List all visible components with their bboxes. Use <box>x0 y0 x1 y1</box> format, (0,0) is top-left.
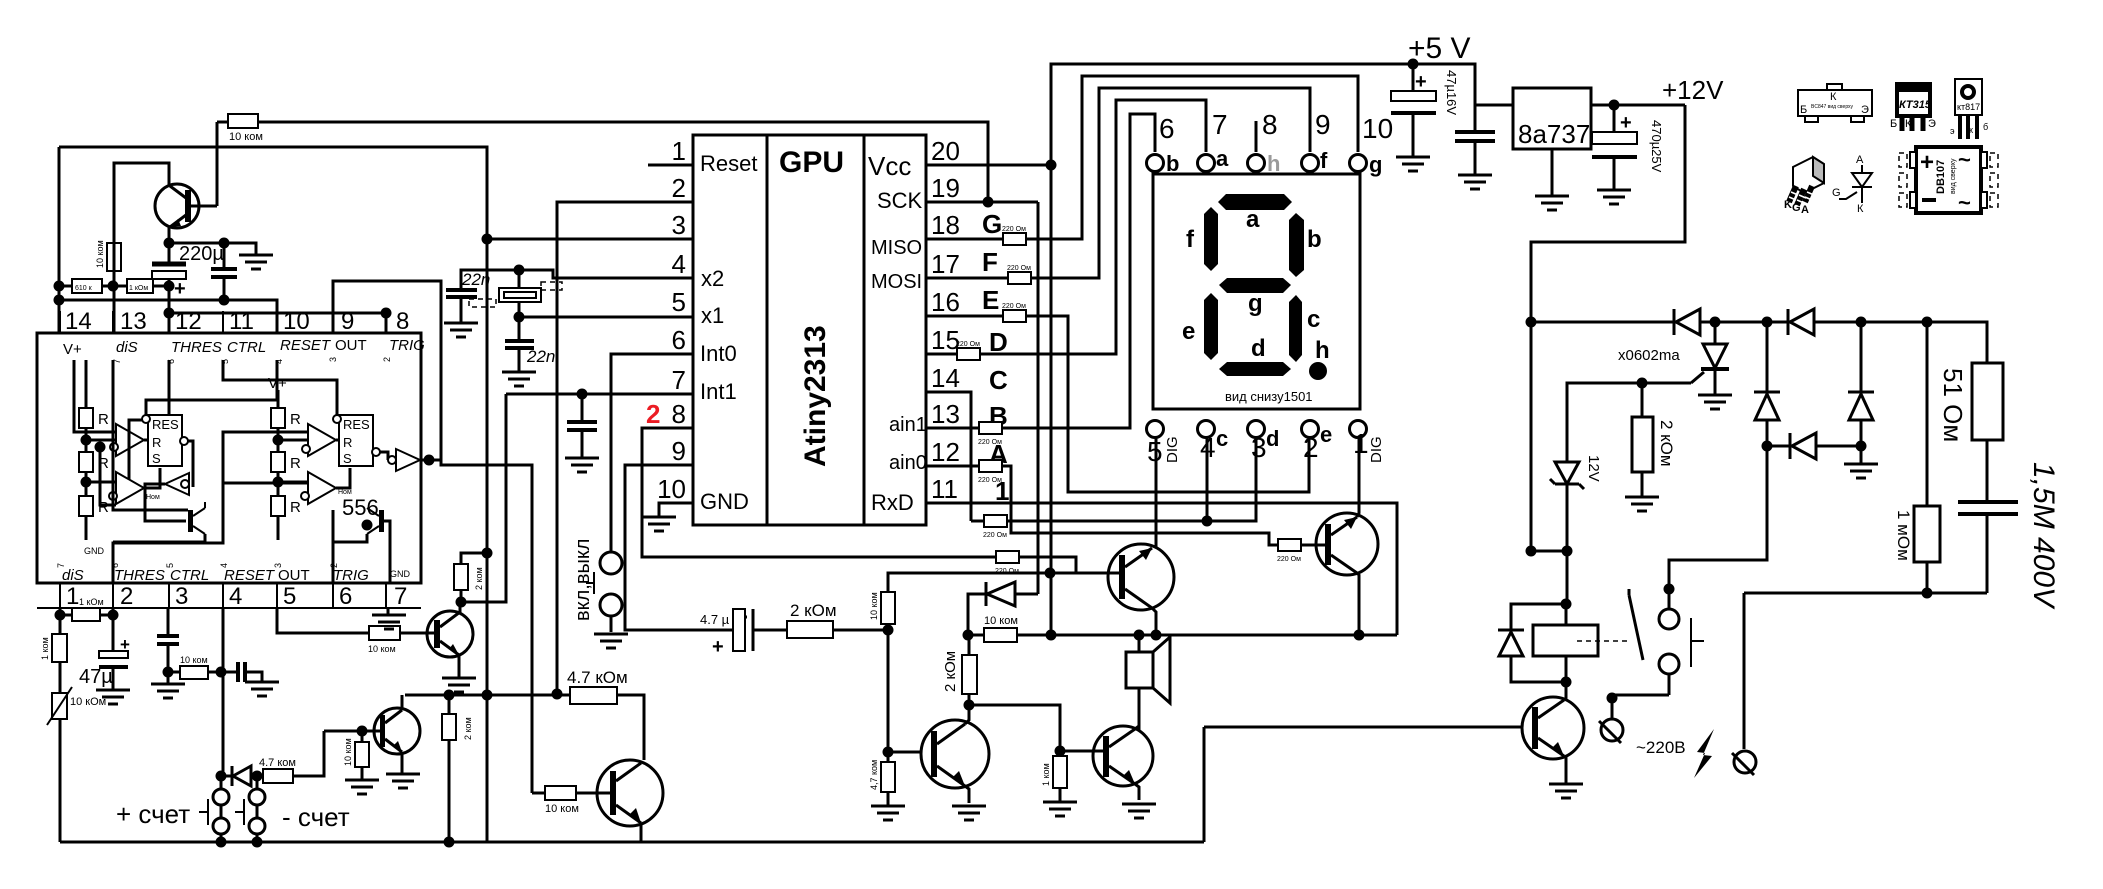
node mid right <box>1856 441 1867 452</box>
wire A to DIG1 base <box>1002 466 1278 545</box>
wire R18 left stub <box>532 792 545 795</box>
svg-text:+: + <box>1620 112 1632 134</box>
svg-text:a: a <box>1216 146 1229 171</box>
svg-text:18: 18 <box>931 210 960 240</box>
svg-text:22n: 22n <box>526 347 555 366</box>
wire R1 left stub <box>217 121 228 124</box>
svg-text:2: 2 <box>1303 432 1319 463</box>
diode D3 <box>1674 309 1700 335</box>
svg-text:14: 14 <box>65 308 92 335</box>
svg-text:V+: V+ <box>63 341 82 358</box>
svg-text:220 Ом: 220 Ом <box>1002 303 1026 310</box>
transistor QH <box>1316 513 1378 575</box>
wire Vcc column down <box>1050 165 1053 635</box>
svg-text:220 Ом: 220 Ом <box>1277 556 1301 563</box>
wire R30 <box>1059 788 1062 802</box>
flip-flop A box <box>142 415 188 466</box>
wire pin19 row <box>926 201 1038 204</box>
IC left pin numbers <box>657 136 686 504</box>
thyristor VS1 <box>1691 322 1729 395</box>
segment dot h <box>1309 362 1327 380</box>
pin labels bottom row <box>62 567 369 584</box>
svg-text:5: 5 <box>165 563 175 568</box>
display top terminals <box>1147 155 1367 172</box>
wire pin4 down <box>222 608 225 776</box>
node gate 2k <box>1637 378 1648 389</box>
svg-text:G: G <box>982 209 1002 239</box>
resistor RB1 <box>271 408 301 428</box>
svg-text:R: R <box>290 411 301 428</box>
wire chain branch <box>100 447 116 505</box>
svg-text:10 ком: 10 ком <box>869 592 879 620</box>
resistor R17 4.7 кОм <box>567 668 628 704</box>
top terminal letters <box>1166 146 1382 177</box>
resistor R30 1 ком vertical <box>1041 756 1067 788</box>
svg-text:2: 2 <box>382 357 392 362</box>
button S1 <box>199 776 229 834</box>
svg-text:a: a <box>1246 206 1260 233</box>
svg-text:220 Ом: 220 Ом <box>1002 226 1026 233</box>
capacitor C4 <box>157 636 179 684</box>
wire pin15 stub <box>926 353 957 356</box>
svg-text:f: f <box>1186 226 1195 253</box>
wire pin7 <box>506 393 693 396</box>
svg-text:MOSI: MOSI <box>871 271 922 293</box>
node chain branch <box>95 442 106 453</box>
svg-text:8: 8 <box>1262 109 1278 140</box>
svg-text:10 ком: 10 ком <box>229 131 263 143</box>
node rail vcc <box>1046 630 1057 641</box>
segment g <box>1219 278 1291 293</box>
wire pin19 column down to diode <box>1037 202 1040 594</box>
node pin2 <box>108 610 119 621</box>
svg-text:ain0: ain0 <box>889 452 927 474</box>
wire pin20 Vcc <box>926 164 1051 167</box>
node c junction <box>1202 516 1213 527</box>
node mid left <box>1762 441 1773 452</box>
svg-text:11: 11 <box>931 474 958 504</box>
node row C left <box>164 308 175 319</box>
wire Vcc riser to +5V <box>1051 64 1513 165</box>
svg-text:SCK: SCK <box>877 188 923 213</box>
node +5V <box>1408 59 1419 70</box>
node row A mid <box>108 281 119 292</box>
resistor R27 10 ком <box>984 615 1018 642</box>
svg-text:8a737: 8a737 <box>1518 119 1590 149</box>
svg-text:1 ком: 1 ком <box>40 637 50 660</box>
wire terminal 2 column <box>1743 593 1746 749</box>
svg-text:b: b <box>1307 226 1322 253</box>
red pin digits top <box>112 357 392 364</box>
terminal X2 <box>1732 751 1756 775</box>
dashed marker left <box>469 299 496 307</box>
capacitor C8 22n <box>505 317 555 372</box>
zener VD1 12V <box>1550 455 1602 551</box>
display bottom terminals <box>1147 421 1367 438</box>
segment a <box>1218 194 1292 210</box>
node RB junction 2 <box>273 477 284 488</box>
svg-text:DB107: DB107 <box>1935 160 1947 194</box>
capacitor C3 47µ <box>79 635 130 690</box>
resistor RB3 <box>271 496 301 516</box>
wire R13 to QD base <box>293 731 324 776</box>
wire top rail to pin3 column <box>59 147 487 239</box>
wire row C to TRIG <box>169 313 386 333</box>
svg-text:47µ: 47µ <box>79 666 113 688</box>
diode D2 <box>986 582 1015 606</box>
svg-text:4: 4 <box>672 249 686 279</box>
svg-text:Ном: Ном <box>146 494 160 501</box>
node bottom rail <box>1922 588 1933 599</box>
svg-text:- счет: - счет <box>282 802 350 832</box>
wire pin1 down <box>59 608 62 615</box>
wire pin9 <box>625 465 735 630</box>
wire R17 row <box>557 695 644 760</box>
svg-text:16: 16 <box>931 287 960 317</box>
wire relay base row <box>1204 727 1522 842</box>
svg-text:A: A <box>1856 154 1864 166</box>
svg-text:GND: GND <box>390 569 411 579</box>
bottom row line <box>37 607 421 609</box>
resistor R16 4,7 ком vertical <box>869 760 895 792</box>
node emitter <box>164 238 175 249</box>
svg-text:e: e <box>1182 318 1195 345</box>
capacitor C2 ceramic <box>211 243 237 300</box>
svg-text:1 мОм: 1 мОм <box>1894 510 1913 561</box>
svg-text:diS: diS <box>116 339 138 356</box>
wire pin3 down <box>167 608 170 634</box>
resistor R9 10 ком <box>368 626 400 654</box>
display DS1 box <box>1153 174 1360 409</box>
wire G to display g <box>1026 76 1358 239</box>
svg-text:+: + <box>1920 149 1934 176</box>
svg-text:3: 3 <box>175 583 188 610</box>
resistor R25 220 Ом <box>983 515 1007 539</box>
svg-text:d: d <box>1251 335 1266 362</box>
svg-text:5: 5 <box>672 287 686 317</box>
svg-text:4.7 µ: 4.7 µ <box>700 612 730 627</box>
resistor RA1 <box>79 408 109 428</box>
resistor R22 220 Ом <box>956 341 980 360</box>
svg-text:3: 3 <box>1251 432 1267 463</box>
resistor R13 4.7 ком <box>259 757 296 783</box>
timer A V+ chain <box>85 360 88 540</box>
svg-text:GND: GND <box>700 489 749 514</box>
node 2к top <box>444 690 455 701</box>
svg-text:22n: 22n <box>461 270 490 289</box>
svg-text:+ счет: + счет <box>116 799 190 829</box>
node pin3 <box>482 234 493 245</box>
node diode right <box>252 771 263 782</box>
svg-text:c: c <box>1216 426 1228 451</box>
svg-text:1 ком: 1 ком <box>1041 763 1051 786</box>
ground G26 <box>1597 190 1631 204</box>
capacitor C13 1,5M 400V <box>1958 462 2060 610</box>
red pin digits bottom <box>56 563 339 568</box>
svg-text:DIG: DIG <box>1368 436 1385 463</box>
svg-text:6: 6 <box>672 325 686 355</box>
svg-text:R: R <box>290 499 301 516</box>
wire QE base row <box>576 792 610 795</box>
wire F to display f <box>1031 88 1310 278</box>
node pin4 row <box>216 667 227 678</box>
svg-text:556: 556 <box>342 495 379 520</box>
wire emitter rail <box>968 634 1397 637</box>
svg-text:CTRL: CTRL <box>170 567 209 584</box>
wire R8 row <box>168 671 221 674</box>
svg-text:G: G <box>1792 202 1801 214</box>
svg-text:x2: x2 <box>701 266 724 291</box>
switch S3 вкл выкл <box>572 539 622 632</box>
package TO-126 3D <box>1784 157 1824 216</box>
svg-text:3: 3 <box>328 357 338 362</box>
wire FF B to inverter B <box>380 452 388 460</box>
wire QB connections <box>333 510 390 583</box>
regulator U3 8a737 <box>1513 88 1591 196</box>
svg-text:1 кОм: 1 кОм <box>129 285 148 292</box>
node inverter B out <box>424 455 435 466</box>
speaker LS1 <box>1126 635 1170 730</box>
svg-text:47µ16V: 47µ16V <box>1444 70 1459 115</box>
node pin20 <box>1046 160 1057 171</box>
transistor QB <box>367 508 384 534</box>
svg-text:12: 12 <box>175 308 202 335</box>
ground G19 <box>871 806 905 820</box>
wire pin4 crystal <box>519 270 693 278</box>
svg-text:Reset: Reset <box>700 151 757 176</box>
node up diode 1 <box>1762 317 1773 328</box>
segment d <box>1219 362 1291 376</box>
package DB107 <box>1899 147 1998 215</box>
svg-text:12: 12 <box>931 437 960 467</box>
node cap2 bottom <box>219 295 230 306</box>
wire OUT9 up and over <box>333 281 532 793</box>
resistor R15 10 ком vertical <box>869 592 895 624</box>
svg-text:2: 2 <box>672 173 686 203</box>
node pin1 <box>55 610 66 621</box>
svg-text:9: 9 <box>672 436 686 466</box>
svg-text:R: R <box>98 411 109 428</box>
svg-text:RES: RES <box>152 417 179 432</box>
IC right pin numbers <box>931 136 960 504</box>
svg-text:g: g <box>1369 152 1382 177</box>
node row A left <box>54 281 65 292</box>
transistor QA <box>188 502 205 534</box>
IC left pin labels <box>700 151 757 514</box>
wire R11 <box>448 695 451 842</box>
wire Q1 collector <box>114 163 169 243</box>
node pin3 cap row <box>163 667 174 678</box>
svg-text:1: 1 <box>66 583 79 610</box>
wire inverter A out to QA <box>145 484 186 521</box>
wire THRES column <box>168 286 171 333</box>
node relay bottom <box>1561 677 1572 688</box>
wire QE emitter to rail <box>640 823 643 842</box>
node S1 rail <box>216 837 227 848</box>
capacitor C7 22n <box>446 270 519 323</box>
svg-text:d: d <box>1266 426 1279 451</box>
svg-text:610 к: 610 к <box>75 285 93 292</box>
wire QD collector row <box>405 694 557 697</box>
wire pin16 stub <box>926 315 1003 318</box>
node S2 rail <box>252 837 263 848</box>
node zener bottom <box>1562 546 1573 557</box>
svg-text:4: 4 <box>1200 432 1216 463</box>
svg-text:9: 9 <box>1315 109 1331 140</box>
wire diode row from pin4 <box>216 771 227 782</box>
wire U3 output <box>1591 104 1685 107</box>
svg-text:R: R <box>290 455 301 472</box>
svg-text:3: 3 <box>273 563 283 568</box>
svg-text:14: 14 <box>931 363 960 393</box>
svg-text:кт817: кт817 <box>1957 102 1980 112</box>
svg-text:К: К <box>1905 118 1912 130</box>
resistor R21 220 Ом <box>1002 303 1026 322</box>
ground G12 <box>386 774 420 788</box>
svg-text:2: 2 <box>646 399 660 429</box>
svg-text:13: 13 <box>120 308 147 335</box>
svg-text:G: G <box>1832 187 1841 199</box>
wire c terminal down <box>1206 437 1209 521</box>
resistor R31 2 кОм vertical <box>1632 383 1676 497</box>
svg-text:вкл,выкл: вкл,выкл <box>572 539 594 621</box>
svg-text:2: 2 <box>120 583 133 610</box>
svg-text:б: б <box>1983 122 1988 132</box>
wire pin1 stub <box>648 164 693 167</box>
wire pin3 column down <box>486 239 489 842</box>
wire row A <box>59 285 169 288</box>
node RB junction 1 <box>273 435 284 446</box>
resistor R11 2 ком vertical <box>442 714 473 740</box>
svg-text:10 ком: 10 ком <box>368 644 396 654</box>
flip-flop B box <box>333 415 380 466</box>
segment b <box>1289 213 1304 277</box>
node rail QG emitter <box>1151 630 1162 641</box>
transistor QE <box>597 760 663 826</box>
svg-text:E: E <box>982 285 999 315</box>
wire to comparator A2 <box>86 360 169 488</box>
svg-text:b: b <box>1166 151 1179 176</box>
svg-text:220 Ом: 220 Ом <box>978 477 1002 484</box>
wire QI emitter <box>1135 784 1139 800</box>
svg-text:F: F <box>982 247 998 277</box>
node 10k column <box>883 625 894 636</box>
timer B V+ chain <box>277 390 280 540</box>
svg-text:7: 7 <box>672 365 686 395</box>
wire QF collector <box>965 705 969 724</box>
svg-text:10: 10 <box>1362 113 1393 144</box>
svg-text:S: S <box>343 451 352 466</box>
svg-text:4.7 кОм: 4.7 кОм <box>567 668 628 687</box>
ground G23 <box>1396 157 1430 171</box>
capacitor C11 <box>1455 105 1495 175</box>
resistor R8 10 ком <box>180 655 208 679</box>
capacitor C9 4.7µ <box>700 609 767 658</box>
transistor QC <box>427 611 473 657</box>
resistor R19 220 Ом <box>1002 226 1026 245</box>
ground G15 <box>642 517 676 531</box>
node Vcc base crossing <box>1045 568 1056 579</box>
wire emitter row <box>169 243 256 255</box>
wire row 521 to c and d <box>1007 437 1256 521</box>
IC U2 556 outline <box>37 333 421 583</box>
node QF collector <box>964 700 975 711</box>
svg-text:RESET: RESET <box>280 337 332 354</box>
pin numbers top row <box>65 308 409 335</box>
wire pin1-pin2 row <box>60 614 113 617</box>
pin dividers bottom <box>60 583 386 608</box>
wire D2 anode <box>1015 593 1038 596</box>
wire row B to RESET <box>59 300 277 333</box>
wire R9 to QC base <box>400 632 434 635</box>
wire pin8 row to QG base <box>888 557 1119 574</box>
svg-text:2 кОм: 2 кОм <box>1657 420 1676 467</box>
node QC collector <box>456 597 467 608</box>
wire bottom HV rail <box>1744 592 1987 595</box>
package KT817 <box>1950 79 1988 139</box>
wire buttons to rail <box>221 834 257 842</box>
node 220µ plus <box>164 281 175 292</box>
svg-text:THRES: THRES <box>114 567 165 584</box>
node R17 left <box>552 689 563 700</box>
ground G1 <box>239 255 273 269</box>
capacitor C12 470µ25V <box>1592 105 1664 190</box>
svg-text:RES: RES <box>343 417 370 432</box>
wire R2 to node <box>113 271 116 286</box>
svg-text:Э: Э <box>1861 104 1869 116</box>
svg-text:A: A <box>1801 204 1809 216</box>
wire QF emitter <box>965 786 969 803</box>
svg-text:~: ~ <box>1958 147 1971 172</box>
wire R12 <box>361 731 364 780</box>
svg-text:10: 10 <box>283 308 310 335</box>
wire mid diode row <box>1767 445 1861 448</box>
wire pin3 <box>487 238 693 241</box>
resistor R32 51 Ом <box>1938 363 2003 502</box>
svg-text:CTRL: CTRL <box>227 339 266 356</box>
ground G8 <box>151 684 185 698</box>
transistor QG <box>1108 544 1174 610</box>
ground G22 <box>1122 804 1156 818</box>
wire QH2 base row <box>1060 750 1103 753</box>
red segment letters <box>982 209 1009 506</box>
svg-text:DIG: DIG <box>1164 436 1181 463</box>
svg-text:+: + <box>712 636 724 658</box>
ground G13 <box>345 780 379 794</box>
node D2 at 10k row <box>963 630 974 641</box>
svg-text:э: э <box>1950 126 1955 136</box>
svg-text:4,7 ком: 4,7 ком <box>869 760 879 790</box>
wire pot down to rail <box>59 719 62 842</box>
node cap branch <box>219 238 230 249</box>
svg-text:BC847 вид сверху: BC847 вид сверху <box>1811 104 1854 110</box>
wire D to display a <box>980 100 1206 354</box>
wire B to display b <box>1002 114 1155 428</box>
switch S4 <box>1629 584 1704 696</box>
ground G24 <box>1458 175 1492 189</box>
svg-text:1: 1 <box>672 136 686 166</box>
wire top rail <box>1531 322 1987 363</box>
wire QC collector <box>459 602 462 613</box>
pin dividers top <box>60 311 386 333</box>
svg-text:+5 V: +5 V <box>1408 32 1471 65</box>
capacitor C10 47µ16V <box>1391 64 1459 157</box>
svg-text:9: 9 <box>341 308 354 335</box>
bottom pin numbers <box>1147 428 1369 467</box>
svg-text:OUT: OUT <box>335 337 367 354</box>
svg-text:~: ~ <box>1958 190 1971 215</box>
resistor R12 10 ком vertical <box>343 738 369 767</box>
